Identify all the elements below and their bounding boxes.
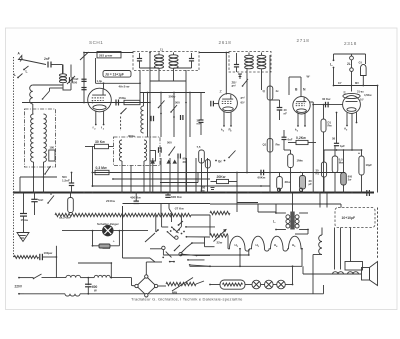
svg-text:10°: 10° [360, 98, 364, 102]
svg-text:6nF: 6nF [288, 138, 293, 142]
svg-text:500: 500 [167, 141, 172, 145]
svg-text:1Mw: 1Mw [297, 159, 304, 163]
svg-text:µF: µF [309, 182, 313, 186]
svg-text:-27 Kw: -27 Kw [174, 206, 184, 210]
svg-text:2L: 2L [347, 62, 351, 66]
svg-text:Gl: Gl [359, 61, 362, 65]
svg-text:10µF: 10µF [366, 163, 373, 167]
svg-text:10¹: 10¹ [338, 81, 342, 85]
svg-text:100µw: 100µw [44, 251, 53, 255]
svg-text:11: 11 [160, 47, 163, 51]
svg-text:+: + [113, 239, 115, 243]
svg-text:1,5nF: 1,5nF [62, 179, 70, 183]
svg-text:ca.242w: ca.242w [59, 216, 71, 220]
svg-text:10+10µF: 10+10µF [342, 216, 356, 220]
svg-text:1,4µ: 1,4µ [97, 79, 103, 83]
svg-text:30 Kw: 30 Kw [322, 97, 331, 101]
svg-text:20 Kw: 20 Kw [106, 199, 116, 203]
svg-text:Jü = 13+1µF: Jü = 13+1µF [105, 73, 124, 77]
svg-text:500: 500 [73, 81, 78, 85]
svg-text:+: + [300, 171, 302, 175]
svg-text:W: W [94, 288, 97, 292]
svg-text:2nF: 2nF [44, 57, 50, 61]
svg-text:60Km: 60Km [258, 176, 266, 180]
svg-text:SCH1: SCH1 [89, 40, 103, 45]
svg-text:500: 500 [175, 101, 180, 105]
svg-text:0,3 Mw: 0,3 Mw [96, 166, 107, 170]
svg-text:22w: 22w [217, 241, 223, 245]
svg-text:180: 180 [49, 146, 54, 150]
svg-text:30: 30 [183, 160, 187, 164]
svg-text:220V: 220V [15, 285, 23, 289]
svg-text:400 Kw: 400 Kw [130, 195, 141, 199]
svg-text:MW: MW [172, 291, 177, 295]
svg-text:30 Kw: 30 Kw [95, 140, 105, 144]
svg-text:600 Kw: 600 Kw [171, 195, 182, 199]
svg-text:L.: L. [273, 220, 276, 224]
svg-text:49+2+w: 49+2+w [119, 84, 131, 88]
svg-text:2718: 2718 [297, 38, 310, 43]
svg-text:500: 500 [62, 175, 67, 179]
svg-text:1µF: 1µF [340, 144, 345, 148]
svg-text:W°: W° [307, 75, 311, 79]
svg-text:20Kw: 20Kw [217, 175, 226, 179]
svg-text:4x: 4x [276, 89, 280, 93]
svg-text:58: 58 [332, 137, 336, 141]
svg-text:4,5Kw: 4,5Kw [364, 93, 372, 97]
svg-text:Tradiateur G. Gichiatros, i Te: Tradiateur G. Gichiatros, i Technik e Da… [131, 297, 243, 302]
svg-text:2618: 2618 [219, 40, 232, 45]
svg-text:Q1: Q1 [263, 143, 267, 147]
svg-text:31-ax: 31-ax [357, 90, 364, 94]
svg-text:300w: 300w [169, 95, 177, 99]
svg-text:5nF: 5nF [38, 198, 44, 202]
svg-text:L: L [14, 73, 16, 77]
svg-text:MV: MV [355, 81, 359, 85]
svg-text:3Kw: 3Kw [285, 180, 292, 184]
svg-text:300w: 300w [128, 134, 136, 138]
svg-text:nF: nF [284, 112, 288, 116]
svg-text:L.: L. [330, 63, 333, 67]
svg-text:293 g ww: 293 g ww [99, 53, 113, 57]
svg-text:0,2Kw: 0,2Kw [296, 136, 306, 140]
svg-text:+: + [358, 152, 360, 156]
svg-text:L: L [26, 70, 28, 74]
svg-text:150w: 150w [119, 96, 127, 100]
svg-text:15nw: 15nw [21, 218, 29, 222]
svg-text:2318: 2318 [344, 41, 357, 46]
svg-text:R1: R1 [316, 172, 320, 176]
svg-text:7,5: 7,5 [197, 145, 201, 149]
